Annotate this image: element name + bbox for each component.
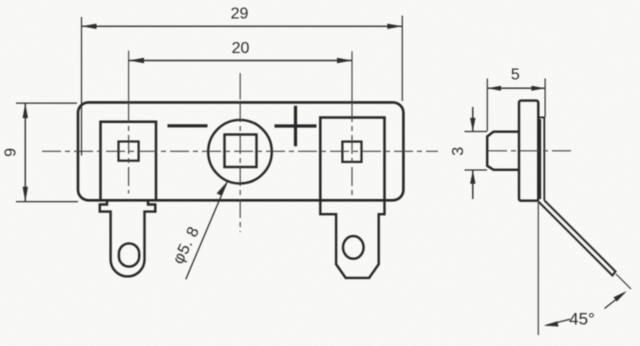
extension line left 29 xyxy=(81,17,83,156)
left contact square xyxy=(101,122,157,201)
side view hex boss xyxy=(487,132,519,170)
dimension 3 arrows xyxy=(472,107,474,131)
dimension line 5 xyxy=(487,87,545,89)
minus symbol xyxy=(168,124,208,127)
vertical centerline center circle xyxy=(239,73,241,99)
extension line bottom 9 xyxy=(16,201,78,203)
side view plate xyxy=(519,101,538,201)
right tab oval hole xyxy=(343,236,364,259)
left solder tab with barbs xyxy=(100,200,156,276)
side view centerline xyxy=(488,150,572,152)
center circle xyxy=(208,120,272,184)
svg-text:9: 9 xyxy=(3,148,20,157)
side view back strip xyxy=(538,117,544,200)
vertical centerline left square xyxy=(128,51,130,103)
vertical extension line for 45 deg xyxy=(537,202,539,336)
45 deg left arrow xyxy=(546,319,570,325)
front view body outline xyxy=(78,102,403,200)
svg-text:3: 3 xyxy=(450,147,467,156)
left tab slot hole xyxy=(119,243,139,266)
leader line phi 5.8 xyxy=(186,182,228,280)
center square hole xyxy=(225,135,257,168)
svg-text:29: 29 xyxy=(231,6,249,23)
45 deg right arrow xyxy=(605,293,625,309)
extension line top 9 xyxy=(16,102,77,104)
right small square hole xyxy=(342,142,361,162)
svg-text:20: 20 xyxy=(232,40,250,57)
dimension line 29 xyxy=(82,25,403,27)
leg tip extension line xyxy=(616,274,631,289)
left small square hole xyxy=(119,142,139,161)
svg-text:45°: 45° xyxy=(569,310,595,329)
side view bent leg 45 deg xyxy=(538,200,615,275)
plus symbol xyxy=(275,106,317,146)
right contact square xyxy=(320,118,384,201)
extension lines 5 xyxy=(486,79,488,132)
vertical centerline right square xyxy=(351,51,353,103)
extension line right 29 xyxy=(401,16,403,101)
extension lines 3 xyxy=(465,131,488,133)
svg-text:5: 5 xyxy=(511,67,520,84)
dimension line 20 xyxy=(129,60,352,62)
dimension line 9 xyxy=(24,104,26,202)
right solder tab xyxy=(320,200,384,278)
horizontal centerline front view xyxy=(42,150,438,152)
